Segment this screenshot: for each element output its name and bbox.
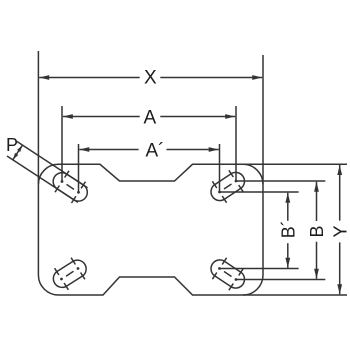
A dimension line: [63, 116, 140, 118]
top-left slot hole-centre dots: [61, 180, 64, 183]
mounting plate outline: [38, 164, 263, 295]
A extension line left: [61, 106, 63, 182]
bottom-right slot centre tick marks: [239, 269, 243, 276]
A' dimension line: [79, 149, 138, 151]
X extension line left: [37, 51, 39, 184]
top-right slot centre line: [224, 184, 232, 189]
P width double arrow: [13, 153, 18, 160]
svg-text:B´: B´: [278, 220, 298, 238]
A' extension line left: [78, 144, 80, 192]
B dimension line: [316, 182, 318, 221]
top-right slot hole-centre dots: [235, 180, 238, 183]
A extension line right: [235, 106, 237, 181]
bottom-left slot hole-centre dots: [60, 278, 63, 281]
B' reference line top: [220, 191, 299, 193]
top-right slot outline: [211, 172, 244, 200]
Y dimension line: [339, 165, 341, 221]
A' extension line right: [219, 144, 221, 192]
P width tangent line lower: [7, 156, 78, 202]
P width tangent line upper: [17, 141, 88, 187]
svg-text:P: P: [6, 135, 18, 155]
svg-text:A: A: [143, 108, 156, 129]
svg-text:B: B: [307, 225, 327, 237]
top-left slot centre line: [67, 184, 75, 189]
B reference line bottom: [236, 279, 325, 281]
B' reference line bottom: [220, 268, 299, 270]
Y reference line top (plate top edge extended): [243, 163, 347, 165]
svg-text:A´: A´: [146, 140, 165, 161]
B reference line top: [236, 180, 325, 182]
top-left slot centre tick marks: [55, 186, 59, 193]
bottom-left slot outline: [53, 260, 86, 287]
X dimension line: [39, 77, 140, 79]
Y reference line bottom (plate bottom edge extended): [243, 294, 347, 296]
bottom-left slot centre line: [66, 271, 74, 276]
bottom-right slot centre line: [224, 272, 232, 277]
B' dimension line: [287, 193, 289, 221]
X extension line right: [262, 55, 264, 184]
top-right slot centre tick marks: [229, 170, 233, 177]
svg-text:Y: Y: [330, 225, 350, 237]
svg-text:X: X: [144, 67, 157, 88]
bottom-left slot centre tick marks: [64, 283, 68, 290]
top-left slot outline: [53, 173, 87, 201]
bottom-right slot outline: [211, 260, 244, 288]
bottom-right slot hole-centre dots: [235, 278, 238, 281]
